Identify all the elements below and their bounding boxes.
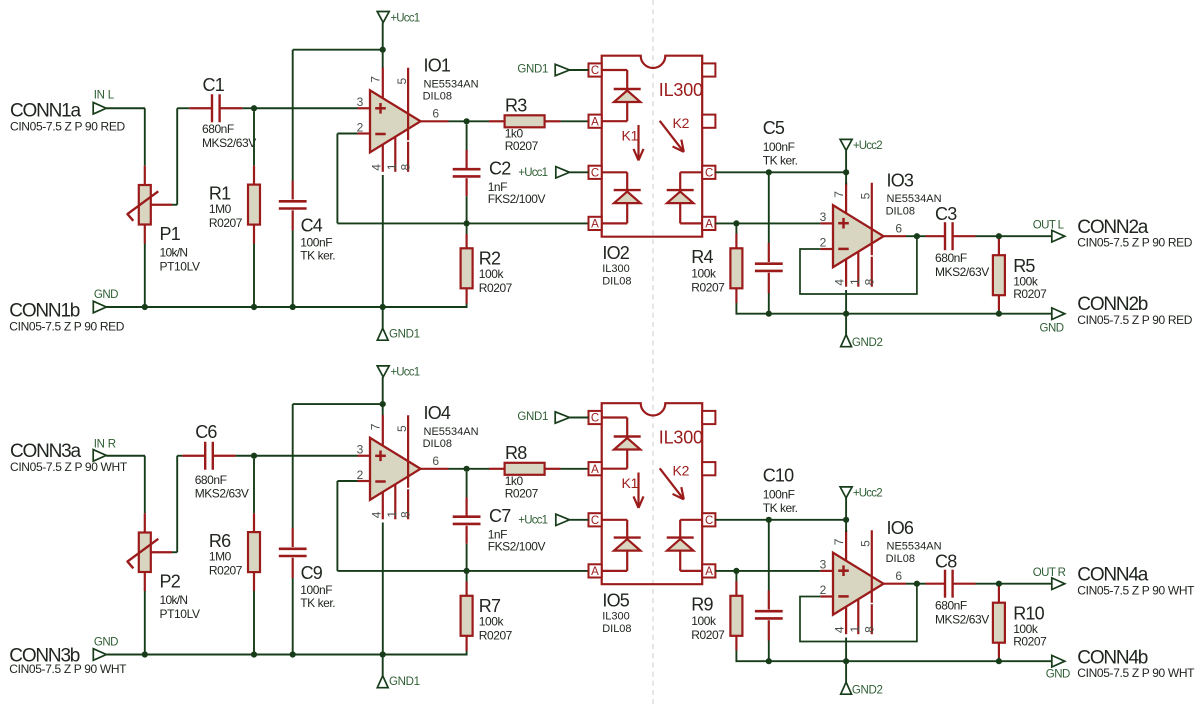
svg-text:10k/N: 10k/N bbox=[160, 593, 188, 607]
svg-text:R3: R3 bbox=[505, 95, 527, 115]
svg-text:3: 3 bbox=[820, 210, 827, 224]
wire R9 to GND2 rail bbox=[735, 651, 737, 663]
IO2 pin box nc right bbox=[702, 63, 715, 76]
wire to CONN2a bbox=[999, 235, 1052, 237]
wire C9 to GND rail bbox=[292, 578, 294, 655]
wire GND2 rail bbox=[736, 660, 1051, 662]
svg-text:C: C bbox=[705, 515, 713, 527]
capacitor C2 bbox=[453, 124, 546, 206]
svg-text:5: 5 bbox=[395, 78, 409, 85]
svg-text:K1: K1 bbox=[622, 475, 639, 491]
net arrow GND1 to optocoupler bbox=[517, 64, 569, 76]
svg-text:P2: P2 bbox=[160, 572, 181, 592]
IO5 LED bbox=[602, 418, 641, 469]
wire op-amp pin2 bbox=[337, 480, 357, 482]
connector CONN2a bbox=[1052, 217, 1193, 250]
svg-text:C1: C1 bbox=[203, 75, 225, 95]
svg-text:C5: C5 bbox=[763, 118, 785, 138]
IO2 photodiode 2 bbox=[667, 172, 703, 223]
power symbol +Ucc2 (right channel) bbox=[840, 487, 882, 500]
wire node to op-amp pin3 bbox=[736, 222, 820, 224]
IO2 K1 arrow bbox=[634, 125, 644, 160]
junction pot-GND bbox=[142, 304, 148, 310]
wire pot wiper bbox=[172, 551, 177, 553]
svg-text:C: C bbox=[591, 65, 599, 77]
resistor R3 bbox=[489, 95, 561, 153]
svg-text:4: 4 bbox=[369, 164, 383, 171]
capacitor C10 bbox=[755, 465, 798, 640]
svg-text:680nF: 680nF bbox=[935, 251, 967, 265]
svg-text:K1: K1 bbox=[622, 128, 639, 144]
svg-text:3: 3 bbox=[820, 558, 827, 572]
IO5 photodiode 2 bbox=[667, 520, 703, 571]
connector CONN4b bbox=[1052, 647, 1195, 680]
svg-text:1M0: 1M0 bbox=[209, 202, 232, 216]
resistor R10 bbox=[993, 587, 1047, 658]
svg-text:CIN05-7.5 Z P 90 WHT: CIN05-7.5 Z P 90 WHT bbox=[9, 662, 127, 676]
svg-text:1: 1 bbox=[385, 511, 399, 518]
junction photodiode node bbox=[733, 220, 739, 226]
svg-text:4: 4 bbox=[833, 279, 847, 286]
resistor R4 bbox=[691, 226, 742, 303]
svg-text:3: 3 bbox=[357, 443, 364, 457]
svg-text:PT10LV: PT10LV bbox=[160, 607, 200, 621]
svg-text:GND1: GND1 bbox=[517, 411, 548, 423]
svg-text:680nF: 680nF bbox=[195, 473, 227, 487]
resistor R6 bbox=[209, 459, 260, 591]
svg-text:CIN05-7.5 Z P 90 WHT: CIN05-7.5 Z P 90 WHT bbox=[10, 460, 128, 474]
svg-text:R0207: R0207 bbox=[505, 487, 539, 501]
net arrow +Ucc1 to optocoupler bbox=[518, 514, 569, 526]
svg-text:GND: GND bbox=[1046, 669, 1070, 681]
svg-text:GND: GND bbox=[94, 289, 118, 301]
op-amp IO1 bbox=[357, 56, 479, 172]
svg-text:100k: 100k bbox=[691, 614, 717, 628]
wire feedback loop bbox=[800, 584, 917, 642]
svg-text:A: A bbox=[591, 116, 599, 128]
junction output node bbox=[464, 466, 470, 472]
svg-text:2: 2 bbox=[820, 236, 827, 250]
junction input node bbox=[251, 105, 257, 111]
svg-text:8: 8 bbox=[862, 278, 876, 285]
part label IO5 bbox=[602, 590, 631, 635]
svg-text:NE5534AN: NE5534AN bbox=[424, 78, 479, 90]
wire op-amp pin4 to GND rail bbox=[382, 523, 384, 655]
svg-text:P1: P1 bbox=[160, 224, 181, 244]
svg-text:5: 5 bbox=[395, 425, 409, 432]
svg-text:CIN05-7.5 Z P 90 RED: CIN05-7.5 Z P 90 RED bbox=[10, 120, 126, 134]
resistor R2 bbox=[461, 226, 513, 304]
capacitor C5 bbox=[755, 118, 798, 293]
svg-text:R5: R5 bbox=[1013, 256, 1035, 276]
junction C9-GND bbox=[290, 651, 296, 657]
svg-text:IO3: IO3 bbox=[887, 171, 914, 191]
IO5 K2 arrow bbox=[660, 468, 684, 499]
svg-text:NE5534AN: NE5534AN bbox=[424, 426, 479, 438]
svg-text:10k/N: 10k/N bbox=[160, 245, 188, 259]
wire GND rail bbox=[106, 654, 466, 656]
junction C10 tap bbox=[766, 517, 772, 523]
svg-text:+Ucc2: +Ucc2 bbox=[853, 140, 882, 152]
svg-text:GND: GND bbox=[1040, 323, 1064, 335]
svg-text:GND1: GND1 bbox=[389, 676, 420, 688]
optocoupler IO5 IL300 body bbox=[602, 403, 703, 584]
svg-text:R1: R1 bbox=[209, 183, 231, 203]
ground symbol GND1 (left channel) bbox=[377, 307, 419, 341]
wire node to op-amp pin3 bbox=[736, 570, 820, 572]
junction R5-GND2 bbox=[996, 311, 1002, 317]
IO5 pin box C left bbox=[589, 411, 602, 425]
potentiometer P1 bbox=[127, 166, 200, 274]
svg-text:IO5: IO5 bbox=[602, 590, 629, 610]
svg-text:IL300: IL300 bbox=[659, 428, 703, 448]
net arrow GND1 to optocoupler bbox=[517, 411, 569, 423]
junction GND2 stem bbox=[843, 311, 849, 317]
net arrow +Ucc1 to optocoupler bbox=[518, 167, 569, 179]
wire +Ucc1 to C4 bbox=[292, 50, 294, 181]
svg-text:MKS2/63V: MKS2/63V bbox=[195, 487, 249, 501]
wire C5 to GND2 rail bbox=[768, 293, 770, 314]
svg-text:IL300: IL300 bbox=[602, 611, 630, 623]
svg-text:R8: R8 bbox=[505, 443, 527, 463]
svg-text:IO4: IO4 bbox=[424, 403, 451, 423]
svg-text:DIL08: DIL08 bbox=[886, 553, 915, 565]
wire cap to output node bbox=[976, 235, 999, 237]
red pin 3 stub bbox=[358, 455, 371, 457]
IO2 pin box C left bbox=[589, 166, 602, 180]
svg-text:R0207: R0207 bbox=[209, 563, 243, 577]
svg-text:C8: C8 bbox=[935, 551, 957, 571]
power symbol +Ucc1 (left channel) bbox=[377, 12, 420, 25]
svg-text:CIN05-7.5 Z P 90 RED: CIN05-7.5 Z P 90 RED bbox=[1077, 313, 1193, 327]
svg-text:DIL08: DIL08 bbox=[602, 623, 631, 635]
svg-text:R0207: R0207 bbox=[691, 281, 725, 295]
wire output to node bbox=[449, 468, 467, 470]
wire +Ucc1 rail horizontal bbox=[293, 49, 383, 51]
wire pin7 from +Ucc2 bbox=[845, 520, 847, 532]
junction GND2 stem bbox=[843, 658, 849, 664]
wire R4 to GND2 rail bbox=[735, 303, 737, 315]
junction +Ucc2 / pin7 bbox=[843, 169, 849, 175]
svg-text:7: 7 bbox=[369, 76, 383, 83]
IO2 pin box A left bbox=[589, 217, 602, 231]
svg-text:MKS2/63V: MKS2/63V bbox=[935, 265, 989, 279]
wire optocoupler to +Ucc2 rail bbox=[715, 519, 846, 521]
svg-text:C: C bbox=[591, 515, 599, 527]
svg-text:DIL08: DIL08 bbox=[602, 275, 631, 287]
IO5 pin box A left bbox=[589, 564, 602, 578]
wire pin4 to GND2 bbox=[845, 290, 847, 314]
wire op-amp pin7 feed bbox=[382, 50, 384, 68]
wire feedback to optocoupler bbox=[337, 222, 588, 224]
connector CONN2b bbox=[1052, 294, 1193, 327]
svg-text:680nF: 680nF bbox=[935, 598, 967, 612]
wire node to C3 bbox=[917, 235, 926, 237]
svg-text:R9: R9 bbox=[691, 595, 713, 615]
wire C2 to feedback bbox=[466, 196, 468, 223]
wire cap to input node bbox=[242, 107, 254, 109]
svg-text:2: 2 bbox=[820, 583, 827, 597]
svg-text:680nF: 680nF bbox=[202, 122, 234, 136]
wire riser to P1 top bbox=[144, 108, 146, 165]
wire feedback riser bbox=[336, 134, 338, 224]
svg-text:IO1: IO1 bbox=[424, 56, 451, 76]
svg-text:4: 4 bbox=[833, 626, 847, 633]
svg-text:6: 6 bbox=[895, 569, 902, 583]
svg-text:5: 5 bbox=[859, 192, 873, 199]
wire to CONN4a bbox=[999, 583, 1052, 585]
IO5 pin box nc right bbox=[702, 411, 715, 424]
capacitor C9 bbox=[279, 528, 335, 610]
svg-text:R0207: R0207 bbox=[691, 628, 725, 642]
wire R3 to IO2 anode bbox=[561, 120, 589, 122]
wire op-amp pin4 to GND rail bbox=[382, 175, 384, 307]
IO5 pin box nc right bbox=[702, 462, 715, 475]
junction C5-GND2 bbox=[766, 311, 772, 317]
svg-text:C10: C10 bbox=[763, 465, 794, 485]
IO2 K2 arrow bbox=[660, 121, 684, 152]
capacitor C6 bbox=[182, 422, 249, 501]
svg-text:1M0: 1M0 bbox=[209, 550, 232, 564]
resistor R5 bbox=[993, 239, 1047, 310]
svg-text:IO2: IO2 bbox=[602, 243, 629, 263]
ground symbol GND1 (right channel) bbox=[377, 655, 419, 689]
IO2 pin box nc right bbox=[702, 115, 715, 128]
resistor R8 bbox=[489, 443, 561, 501]
wire R1 to GND rail bbox=[253, 244, 255, 308]
resistor R1 bbox=[209, 111, 260, 243]
capacitor C8 bbox=[926, 551, 990, 626]
svg-text:CIN05-7.5 Z P 90 RED: CIN05-7.5 Z P 90 RED bbox=[9, 320, 125, 334]
svg-text:100nF: 100nF bbox=[300, 583, 332, 597]
svg-text:TK ker.: TK ker. bbox=[763, 501, 798, 515]
wire +Ucc2 stem bbox=[845, 498, 847, 520]
junction photodiode node bbox=[733, 568, 739, 574]
junction input node bbox=[251, 453, 257, 459]
svg-text:IO6: IO6 bbox=[887, 518, 914, 538]
svg-text:3: 3 bbox=[357, 95, 364, 109]
wire R7 to GND rail bbox=[466, 651, 468, 656]
svg-text:1: 1 bbox=[385, 163, 399, 170]
svg-text:C6: C6 bbox=[195, 422, 217, 442]
wire +Ucc1 stem bbox=[382, 377, 384, 404]
svg-text:TK ker.: TK ker. bbox=[300, 249, 335, 263]
wire R2 to GND rail bbox=[466, 304, 468, 309]
junction R10-GND2 bbox=[996, 658, 1002, 664]
wire P2 bottom to GND rail bbox=[144, 591, 146, 655]
svg-text:OUT R: OUT R bbox=[1033, 567, 1066, 579]
wire pin7 from +Ucc2 bbox=[845, 172, 847, 184]
capacitor C3 bbox=[926, 204, 990, 279]
junction output node bbox=[464, 118, 470, 124]
svg-text:OUT L: OUT L bbox=[1033, 220, 1065, 232]
svg-text:R4: R4 bbox=[691, 247, 713, 267]
IO2 pin box A left bbox=[589, 115, 602, 129]
svg-text:IN R: IN R bbox=[94, 439, 116, 451]
wire R6 to GND rail bbox=[253, 591, 255, 655]
svg-text:CIN05-7.5 Z P 90 RED: CIN05-7.5 Z P 90 RED bbox=[1077, 236, 1193, 250]
wire input node to op-amp pin3 bbox=[254, 455, 358, 457]
wire cap to output node bbox=[976, 583, 999, 585]
wire node to C8 bbox=[917, 583, 926, 585]
IO5 photodiode 1 bbox=[602, 520, 641, 571]
wire feedback riser bbox=[336, 481, 338, 571]
svg-text:CIN05-7.5 Z P 90 WHT: CIN05-7.5 Z P 90 WHT bbox=[1077, 583, 1195, 597]
wire input node to op-amp pin3 bbox=[254, 107, 358, 109]
wire GND2 rail bbox=[736, 313, 1051, 315]
svg-text:IL300: IL300 bbox=[659, 80, 703, 100]
svg-text:GND1: GND1 bbox=[389, 329, 420, 341]
wire to C1 bbox=[177, 107, 189, 109]
svg-text:C7: C7 bbox=[489, 506, 511, 526]
svg-text:4: 4 bbox=[369, 511, 383, 518]
svg-text:7: 7 bbox=[832, 538, 846, 545]
wire P1 bottom to GND rail bbox=[144, 244, 146, 308]
wire to C6 bbox=[177, 455, 182, 457]
junction GND1 stem bbox=[380, 651, 386, 657]
wire feedback loop bbox=[800, 236, 917, 294]
svg-text:1: 1 bbox=[848, 278, 862, 285]
red pin 6 output bbox=[421, 468, 449, 470]
svg-text:C3: C3 bbox=[935, 204, 957, 224]
junction feedback node bbox=[464, 220, 470, 226]
svg-text:R0207: R0207 bbox=[505, 139, 539, 153]
svg-text:IL300: IL300 bbox=[602, 263, 630, 275]
wire node to R8 bbox=[467, 468, 489, 470]
junction C5 tap bbox=[766, 169, 772, 175]
capacitor C1 bbox=[189, 75, 256, 150]
wire +Ucc2 stem bbox=[845, 150, 847, 172]
svg-text:R0207: R0207 bbox=[1013, 635, 1047, 649]
wire output to node bbox=[906, 235, 917, 237]
svg-text:PT10LV: PT10LV bbox=[160, 259, 200, 273]
svg-text:+Ucc2: +Ucc2 bbox=[853, 488, 882, 500]
capacitor C7 bbox=[453, 472, 546, 554]
potentiometer P2 bbox=[127, 513, 200, 621]
wire pot wiper bbox=[172, 204, 177, 206]
red pin 6 output bbox=[421, 120, 449, 122]
red pin 2 stub bbox=[820, 248, 833, 250]
svg-text:R0207: R0207 bbox=[479, 629, 513, 643]
svg-text:TK ker.: TK ker. bbox=[763, 154, 798, 168]
svg-text:7: 7 bbox=[832, 191, 846, 198]
junction output feedback node bbox=[914, 581, 920, 587]
svg-text:CONN3a: CONN3a bbox=[10, 441, 82, 462]
svg-text:R6: R6 bbox=[209, 531, 231, 551]
wire riser to P2 top bbox=[144, 456, 146, 513]
svg-text:A: A bbox=[591, 566, 599, 578]
svg-text:FKS2/100V: FKS2/100V bbox=[488, 192, 546, 206]
connector CONN1b bbox=[9, 301, 125, 334]
junction pot-GND bbox=[142, 651, 148, 657]
wire +Ucc1 arrow to box bbox=[570, 519, 589, 521]
power symbol +Ucc2 (left channel) bbox=[840, 139, 882, 152]
svg-text:R7: R7 bbox=[479, 596, 501, 616]
svg-text:A: A bbox=[705, 566, 713, 578]
wire C10 to GND2 rail bbox=[768, 641, 770, 662]
svg-text:A: A bbox=[591, 464, 599, 476]
svg-text:6: 6 bbox=[895, 222, 902, 236]
svg-text:MKS2/63V: MKS2/63V bbox=[202, 136, 256, 150]
svg-text:1: 1 bbox=[848, 626, 862, 633]
junction +Ucc1 rail / op-amp pin7 bbox=[380, 401, 386, 407]
wire wiper riser bbox=[176, 108, 178, 205]
svg-text:C: C bbox=[705, 167, 713, 179]
wire CONN3a to P2 bbox=[106, 455, 145, 457]
wire GND rail bbox=[106, 306, 466, 308]
wire C7 to feedback bbox=[466, 544, 468, 571]
IO5 pin box A right bbox=[702, 564, 715, 578]
wire optocoupler anode to R4 bbox=[715, 222, 736, 224]
svg-text:K2: K2 bbox=[673, 115, 690, 131]
red pin 3 stub bbox=[820, 222, 833, 224]
svg-text:C: C bbox=[591, 413, 599, 425]
svg-text:8: 8 bbox=[399, 511, 413, 518]
wire op-amp pin2 bbox=[337, 133, 357, 135]
IO5 pin box C left bbox=[589, 513, 602, 527]
part label IO2 bbox=[602, 243, 631, 288]
wire pin4 to GND2 bbox=[845, 638, 847, 662]
junction +Ucc2 / pin7 bbox=[843, 517, 849, 523]
svg-text:NE5534AN: NE5534AN bbox=[887, 541, 942, 553]
wire output to node bbox=[449, 120, 467, 122]
svg-text:DIL08: DIL08 bbox=[886, 206, 915, 218]
wire output to node bbox=[906, 583, 917, 585]
resistor R9 bbox=[691, 574, 742, 651]
svg-text:100nF: 100nF bbox=[763, 487, 795, 501]
svg-text:R0207: R0207 bbox=[209, 216, 243, 230]
IO2 pin box C left bbox=[589, 63, 602, 77]
svg-text:6: 6 bbox=[432, 454, 439, 468]
IO2 pin box C right bbox=[702, 166, 715, 180]
red pin 2 stub bbox=[358, 132, 371, 134]
capacitor C4 bbox=[279, 181, 335, 263]
svg-text:A: A bbox=[591, 219, 599, 231]
svg-text:MKS2/63V: MKS2/63V bbox=[935, 612, 989, 626]
IO2 photodiode 1 bbox=[602, 172, 641, 223]
svg-text:A: A bbox=[705, 219, 713, 231]
IO2 pin box A right bbox=[702, 217, 715, 231]
wire C4 to GND rail bbox=[292, 231, 294, 308]
svg-text:GND: GND bbox=[94, 637, 118, 649]
svg-text:+Ucc1: +Ucc1 bbox=[518, 514, 547, 526]
svg-text:+Ucc1: +Ucc1 bbox=[390, 367, 419, 379]
resistor R7 bbox=[461, 574, 513, 652]
svg-text:FKS2/100V: FKS2/100V bbox=[488, 540, 546, 554]
wire cap to input node bbox=[236, 455, 254, 457]
connector CONN4a bbox=[1052, 565, 1195, 598]
svg-text:C9: C9 bbox=[301, 563, 323, 583]
op-amp IO4 bbox=[357, 403, 479, 519]
red pin 2 stub bbox=[820, 595, 833, 597]
red pin 6 output bbox=[884, 583, 907, 585]
svg-text:CONN1b: CONN1b bbox=[9, 301, 80, 322]
svg-text:+Ucc1: +Ucc1 bbox=[390, 12, 419, 24]
svg-text:6: 6 bbox=[432, 107, 439, 121]
svg-text:GND1: GND1 bbox=[517, 64, 548, 76]
svg-text:R0207: R0207 bbox=[479, 281, 513, 295]
junction +Ucc1 rail / op-amp pin7 bbox=[380, 47, 386, 53]
wire feedback to optocoupler bbox=[337, 570, 588, 572]
svg-text:TK ker.: TK ker. bbox=[300, 596, 335, 610]
ground symbol GND2 (right channel) bbox=[841, 661, 883, 696]
svg-text:DIL08: DIL08 bbox=[423, 91, 452, 103]
svg-text:IN L: IN L bbox=[94, 90, 115, 102]
svg-text:100k: 100k bbox=[479, 614, 505, 628]
svg-text:5: 5 bbox=[859, 540, 873, 547]
junction C10-GND2 bbox=[766, 658, 772, 664]
svg-text:GND2: GND2 bbox=[852, 684, 883, 696]
